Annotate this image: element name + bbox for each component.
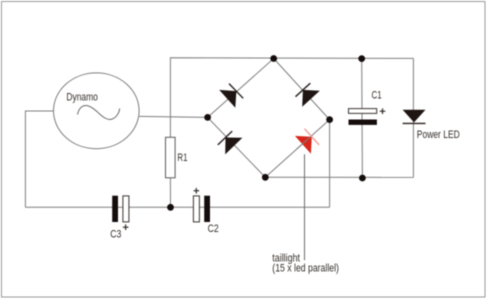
- wire dynamo left lead down to bottom rail: [25, 111, 53, 207]
- svg-text:C1: C1: [372, 90, 382, 102]
- svg-text:R1: R1: [177, 152, 187, 164]
- capacitor C1: [349, 109, 377, 125]
- wire bridge arm left-top: [208, 59, 274, 118]
- node C1 bottom tap: [359, 175, 366, 182]
- wire riser from rail up to bridge right node: [329, 120, 331, 208]
- C3 plus sign: [123, 224, 128, 230]
- svg-text:Power LED: Power LED: [417, 129, 460, 141]
- svg-text:(15 x led parallel): (15 x led parallel): [272, 262, 339, 274]
- svg-text:Dynamo: Dynamo: [66, 92, 98, 104]
- node X R1/C3/C2 junction: [167, 204, 174, 211]
- wire bridge arm top-right: [274, 59, 330, 120]
- svg-text:C2: C2: [208, 223, 219, 235]
- taillight LED red diode bottom-right arm: [295, 129, 319, 154]
- C2 plus sign: [194, 188, 200, 194]
- wire bottom DC- rail: [265, 176, 413, 178]
- wire bridge arm bottom-right: [265, 120, 329, 178]
- node top (DC+): [270, 55, 277, 62]
- wire C1 branch vertical: [361, 59, 364, 178]
- wire bottom AC rail through C3 and C2: [25, 206, 329, 208]
- wire R1 bottom lead to node X: [169, 178, 171, 208]
- capacitor C3: [112, 196, 129, 222]
- resistor R1: [166, 137, 176, 178]
- wire bridge arm left-bottom: [208, 117, 266, 177]
- svg-text:C3: C3: [110, 229, 121, 241]
- node right (AC): [326, 116, 333, 123]
- wire taillight callout line: [304, 154, 306, 260]
- node left (AC): [204, 114, 211, 121]
- dynamo G1 circle: [54, 73, 140, 149]
- C1 plus sign: [380, 108, 386, 114]
- node C1 top tap: [358, 55, 365, 62]
- capacitor C2: [193, 196, 210, 222]
- wire dynamo right lead to bridge left node: [139, 116, 207, 117]
- diode D1 top-left arm: [219, 84, 243, 108]
- wire power LED branch vertical: [412, 58, 414, 177]
- diode D3 bottom-left arm: [218, 131, 243, 154]
- diode D2 top-right arm: [296, 83, 320, 107]
- power LED diode: [403, 110, 426, 124]
- node bottom (DC-): [262, 174, 269, 181]
- wire top DC+ rail: [170, 58, 413, 138]
